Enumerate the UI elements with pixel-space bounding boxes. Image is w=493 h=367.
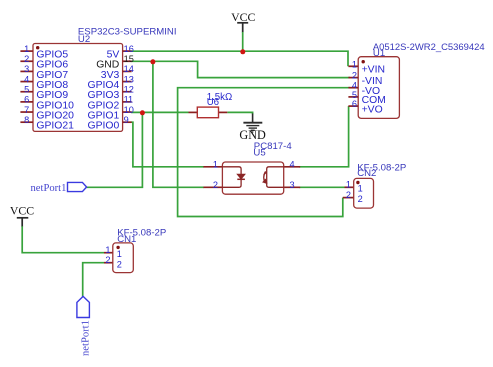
svg-text:8: 8 bbox=[24, 115, 29, 125]
svg-text:CN2: CN2 bbox=[357, 168, 376, 179]
svg-text:U1: U1 bbox=[373, 48, 385, 59]
svg-text:1: 1 bbox=[352, 59, 357, 69]
svg-text:14: 14 bbox=[124, 64, 134, 74]
svg-text:6: 6 bbox=[24, 95, 29, 105]
svg-text:VCC: VCC bbox=[10, 203, 34, 217]
svg-text:A0512S-2WR2_C5369424: A0512S-2WR2_C5369424 bbox=[373, 42, 485, 53]
svg-text:GPIO0: GPIO0 bbox=[88, 121, 120, 132]
svg-text:netPort1: netPort1 bbox=[31, 183, 67, 194]
svg-text:GND: GND bbox=[239, 128, 266, 142]
svg-text:1: 1 bbox=[117, 249, 122, 259]
svg-text:12: 12 bbox=[124, 85, 134, 95]
svg-text:3: 3 bbox=[290, 180, 295, 190]
svg-text:netPort1: netPort1 bbox=[80, 320, 91, 356]
svg-text:7: 7 bbox=[24, 105, 29, 115]
svg-text:2: 2 bbox=[213, 180, 218, 190]
svg-text:13: 13 bbox=[124, 74, 134, 84]
svg-text:2: 2 bbox=[105, 255, 110, 265]
svg-text:2: 2 bbox=[346, 190, 351, 200]
svg-text:2: 2 bbox=[358, 194, 363, 204]
svg-text:GPIO21: GPIO21 bbox=[36, 121, 74, 132]
svg-text:U5: U5 bbox=[253, 148, 265, 159]
svg-text:9: 9 bbox=[124, 115, 129, 125]
svg-text:1: 1 bbox=[24, 44, 29, 54]
svg-text:2: 2 bbox=[24, 54, 29, 64]
svg-text:11: 11 bbox=[124, 95, 134, 105]
svg-text:VCC: VCC bbox=[231, 10, 255, 24]
svg-text:4: 4 bbox=[24, 74, 29, 84]
svg-text:+VO: +VO bbox=[362, 104, 383, 115]
svg-text:1: 1 bbox=[213, 160, 218, 170]
svg-text:2: 2 bbox=[352, 71, 357, 81]
svg-text:5: 5 bbox=[24, 85, 29, 95]
svg-text:U2: U2 bbox=[78, 34, 90, 45]
svg-text:1: 1 bbox=[105, 245, 110, 255]
svg-text:6: 6 bbox=[352, 99, 357, 109]
svg-text:4: 4 bbox=[290, 160, 295, 170]
svg-text:2: 2 bbox=[117, 260, 122, 270]
svg-text:CN1: CN1 bbox=[117, 234, 136, 245]
svg-text:15: 15 bbox=[124, 54, 134, 64]
svg-text:16: 16 bbox=[124, 44, 134, 54]
svg-text:3: 3 bbox=[24, 64, 29, 74]
svg-text:U6: U6 bbox=[207, 97, 219, 108]
svg-text:1: 1 bbox=[358, 183, 363, 193]
svg-text:+VIN: +VIN bbox=[362, 65, 385, 76]
svg-text:10: 10 bbox=[124, 105, 134, 115]
svg-text:ESP32C3-SUPERMINI: ESP32C3-SUPERMINI bbox=[78, 27, 177, 38]
svg-text:1: 1 bbox=[346, 180, 351, 190]
